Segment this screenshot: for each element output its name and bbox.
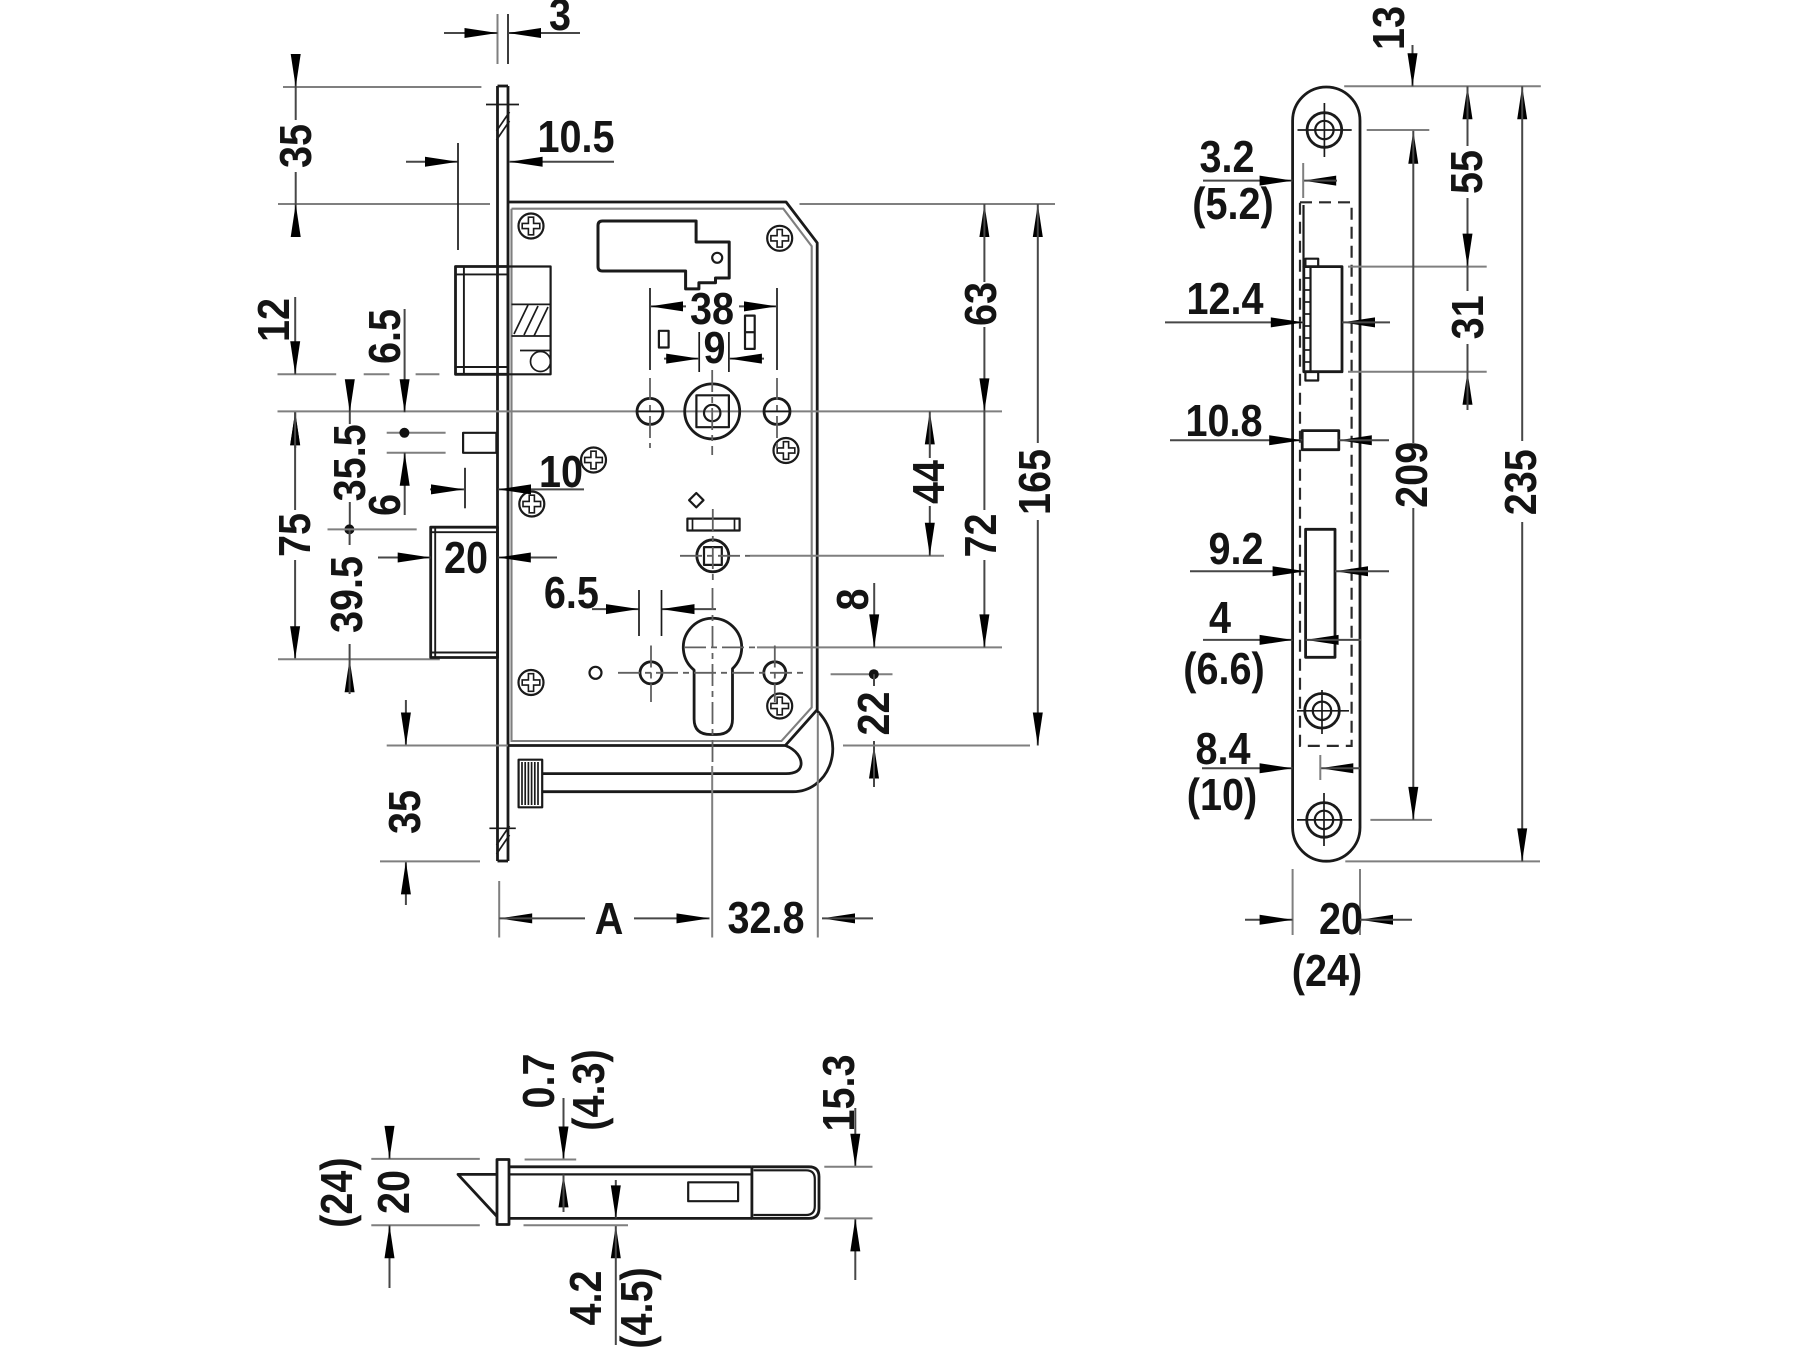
plate bottom extension line xyxy=(1345,860,1540,862)
svg-text:(4.3): (4.3) xyxy=(563,1049,614,1130)
svg-text:4.2: 4.2 xyxy=(560,1270,611,1325)
dim 10.5 extension line xyxy=(457,143,459,250)
dim 55 xyxy=(1463,86,1473,119)
follower square xyxy=(696,395,729,427)
dim 22 xyxy=(873,674,875,686)
svg-text:12: 12 xyxy=(248,298,299,342)
plate bottom extension (bottom view) xyxy=(524,1224,629,1226)
faceplate top edge xyxy=(498,85,509,88)
dim 20 (24) left extensions xyxy=(371,1158,480,1160)
lock case outline xyxy=(508,202,817,746)
screw top-right xyxy=(767,226,792,251)
dim 6 reference lines xyxy=(387,432,446,434)
detail rect right of follower xyxy=(745,316,755,349)
hole row extension line xyxy=(831,673,893,675)
dim 3 extension ticks xyxy=(497,14,499,64)
svg-text:63: 63 xyxy=(955,282,1006,326)
latch flange edge upper xyxy=(1302,205,1304,267)
latch tail block xyxy=(508,267,551,375)
plate top extension line xyxy=(1344,85,1541,87)
svg-text:44: 44 xyxy=(903,460,954,504)
dim 72 xyxy=(983,411,985,510)
dim 4.2 (4.5) xyxy=(615,1180,617,1218)
svg-text:35: 35 xyxy=(270,124,321,168)
latch guide line xyxy=(520,350,551,352)
case top extension right xyxy=(800,203,1056,205)
dim 8 xyxy=(873,583,875,647)
deadbolt xyxy=(431,527,498,657)
lever cutout pivot hole xyxy=(712,253,722,263)
latch flange line xyxy=(1309,267,1311,372)
aux follower extension line right xyxy=(750,555,944,557)
latch bottom extension xyxy=(1348,371,1487,373)
latch body bottom xyxy=(509,1217,752,1220)
euro cylinder hole xyxy=(683,618,741,734)
svg-text:20: 20 xyxy=(444,532,488,583)
latch end cap inner xyxy=(754,1170,815,1215)
svg-text:165: 165 xyxy=(1009,449,1060,515)
follower centerlines xyxy=(711,370,713,455)
svg-text:22: 22 xyxy=(848,691,899,735)
deadbolt bevel xyxy=(431,527,498,657)
faceplate outline xyxy=(1293,87,1360,861)
svg-text:20: 20 xyxy=(1319,893,1363,944)
latch spring coils xyxy=(512,304,551,336)
diamond mark xyxy=(689,493,703,507)
aux follower circle xyxy=(697,540,729,572)
svg-text:55: 55 xyxy=(1441,150,1492,194)
handle spring bar inner xyxy=(542,746,801,774)
screw top extension line xyxy=(1367,129,1430,131)
dim 38 extension lines xyxy=(649,288,651,370)
svg-text:6: 6 xyxy=(359,494,410,516)
svg-text:32.8: 32.8 xyxy=(727,892,804,943)
svg-text:15.3: 15.3 xyxy=(813,1054,864,1131)
deadbolt top reference line xyxy=(328,528,417,530)
dim 6 dot xyxy=(399,428,409,438)
faceplate right edge xyxy=(507,86,510,861)
dim 8/22 dot xyxy=(869,669,879,679)
latch top tab xyxy=(1305,259,1318,267)
dim 39.5 xyxy=(349,529,351,545)
faceplate screw hole top xyxy=(1307,113,1342,148)
latch bolt head xyxy=(456,267,509,375)
svg-text:10.5: 10.5 xyxy=(537,111,614,162)
case bottom extension left xyxy=(387,745,508,747)
svg-text:209: 209 xyxy=(1386,442,1437,508)
cylinder center extension right xyxy=(757,646,1002,648)
faceplate bottom edge xyxy=(498,860,509,863)
screw bottom extension line xyxy=(1370,819,1432,821)
dim 10 extension line xyxy=(464,468,466,509)
handle hole left xyxy=(637,398,663,424)
latch guide roller xyxy=(531,352,551,372)
latch opening xyxy=(1304,267,1342,372)
cylinder slot xyxy=(1306,529,1335,657)
lever cutout xyxy=(598,221,729,289)
svg-text:3.2: 3.2 xyxy=(1199,131,1254,182)
latch window xyxy=(688,1182,738,1201)
screw bottom-right xyxy=(767,694,792,719)
dim A xyxy=(499,913,532,923)
dim 20 (24) extension lines xyxy=(1292,869,1294,935)
guard pin xyxy=(463,433,496,453)
detail rect left of follower xyxy=(659,331,669,348)
dim 44 xyxy=(925,411,935,444)
faceplate screw hole middle xyxy=(1305,694,1340,729)
fixing hole right xyxy=(764,662,786,684)
dim 235 xyxy=(1517,86,1527,119)
svg-text:0.7: 0.7 xyxy=(513,1053,564,1108)
dim 9 xyxy=(664,358,699,360)
svg-text:20: 20 xyxy=(368,1170,419,1214)
svg-text:9.2: 9.2 xyxy=(1208,523,1263,574)
svg-text:35.5: 35.5 xyxy=(324,424,375,501)
svg-text:(6.6): (6.6) xyxy=(1183,643,1264,694)
fixing hole left xyxy=(640,662,662,684)
faceplate left edge xyxy=(496,86,499,861)
svg-text:(4.5): (4.5) xyxy=(611,1267,662,1348)
dim 20 xyxy=(378,557,431,559)
dim 31 xyxy=(1467,267,1469,291)
svg-text:31: 31 xyxy=(1442,295,1493,339)
svg-text:(24): (24) xyxy=(311,1157,362,1227)
svg-text:13: 13 xyxy=(1363,6,1414,50)
faceplate screw hole bottom xyxy=(1307,803,1342,838)
dim 35 bottom xyxy=(405,700,407,746)
dim 6.5 extension lines xyxy=(638,590,640,636)
case silhouette dashed xyxy=(1300,202,1352,746)
latch body top xyxy=(509,1165,752,1168)
screw mid-left upper xyxy=(581,448,606,473)
dim 75 xyxy=(290,412,300,445)
svg-text:(5.2): (5.2) xyxy=(1192,178,1273,229)
dot node 35.5/39.5 xyxy=(344,524,354,534)
latch nose xyxy=(458,1174,497,1216)
svg-text:10.8: 10.8 xyxy=(1185,395,1262,446)
svg-text:8.4: 8.4 xyxy=(1195,723,1250,774)
aux follower square xyxy=(704,547,722,565)
dim 63 xyxy=(979,204,989,237)
follower circle xyxy=(685,384,740,439)
lock case inner offset line xyxy=(512,209,812,741)
plate top extension line xyxy=(283,86,481,88)
screw mid-left lower xyxy=(519,492,544,517)
faceplate break mark bottom xyxy=(489,826,515,854)
fixing hole small xyxy=(590,667,602,679)
latch bottom tab xyxy=(1305,372,1318,381)
latch serration xyxy=(1304,278,1311,362)
dim 38 xyxy=(650,305,686,307)
latch top extension xyxy=(1348,266,1487,268)
dim 20 (24) xyxy=(1245,919,1293,921)
svg-text:6.5: 6.5 xyxy=(544,567,599,618)
plate slice xyxy=(497,1160,509,1225)
latch bottom reference line xyxy=(278,373,337,375)
deadbolt bottom reference line xyxy=(278,658,440,660)
aux follower centerlines xyxy=(712,509,714,584)
handle spring bar outer xyxy=(542,710,833,792)
latch end cap xyxy=(752,1167,819,1219)
svg-text:6.5: 6.5 xyxy=(359,309,410,364)
aux lever bar xyxy=(687,519,739,531)
body extensions (bottom view) xyxy=(824,1166,872,1168)
svg-text:235: 235 xyxy=(1495,449,1546,515)
svg-text:3: 3 xyxy=(549,0,571,40)
svg-text:(10): (10) xyxy=(1187,769,1257,820)
dim 209 xyxy=(1408,131,1418,164)
screw top-left xyxy=(519,214,544,239)
aux slot xyxy=(1302,431,1339,450)
faceplate break mark top xyxy=(486,105,519,141)
bar end cap xyxy=(519,760,543,808)
hole centerlines xyxy=(649,378,651,448)
plate bottom extension xyxy=(380,860,480,862)
cylinder centerlines xyxy=(712,588,714,762)
svg-text:35: 35 xyxy=(379,790,430,834)
screw mid-right xyxy=(774,438,799,463)
latch bolt head bevel xyxy=(456,267,509,375)
svg-text:39.5: 39.5 xyxy=(321,556,372,633)
dim 35.5 xyxy=(349,380,351,424)
svg-text:8: 8 xyxy=(827,588,878,610)
dim 165 xyxy=(1033,204,1043,237)
dim 35 top xyxy=(295,55,297,87)
handle centerline xyxy=(278,410,1003,412)
case top extension line left xyxy=(278,203,490,205)
svg-text:72: 72 xyxy=(955,513,1006,557)
dim A extension lines xyxy=(498,881,500,938)
latch body inner top xyxy=(509,1173,752,1175)
screw bottom-left xyxy=(519,670,544,695)
plate top extension (bottom view) xyxy=(525,1159,577,1161)
svg-text:A: A xyxy=(595,893,624,944)
dim 9 extension lines xyxy=(698,332,700,372)
case bottom extension right xyxy=(843,745,1030,747)
svg-text:4: 4 xyxy=(1209,592,1231,643)
dim 6 xyxy=(404,453,406,515)
follower inner circle xyxy=(704,405,720,421)
fixing holes centerline xyxy=(618,672,806,674)
handle hole right xyxy=(764,398,790,424)
svg-text:75: 75 xyxy=(269,513,320,557)
svg-text:9: 9 xyxy=(703,322,725,373)
dim 3 xyxy=(444,32,498,34)
svg-text:(24): (24) xyxy=(1292,945,1362,996)
svg-text:12.4: 12.4 xyxy=(1186,273,1263,324)
